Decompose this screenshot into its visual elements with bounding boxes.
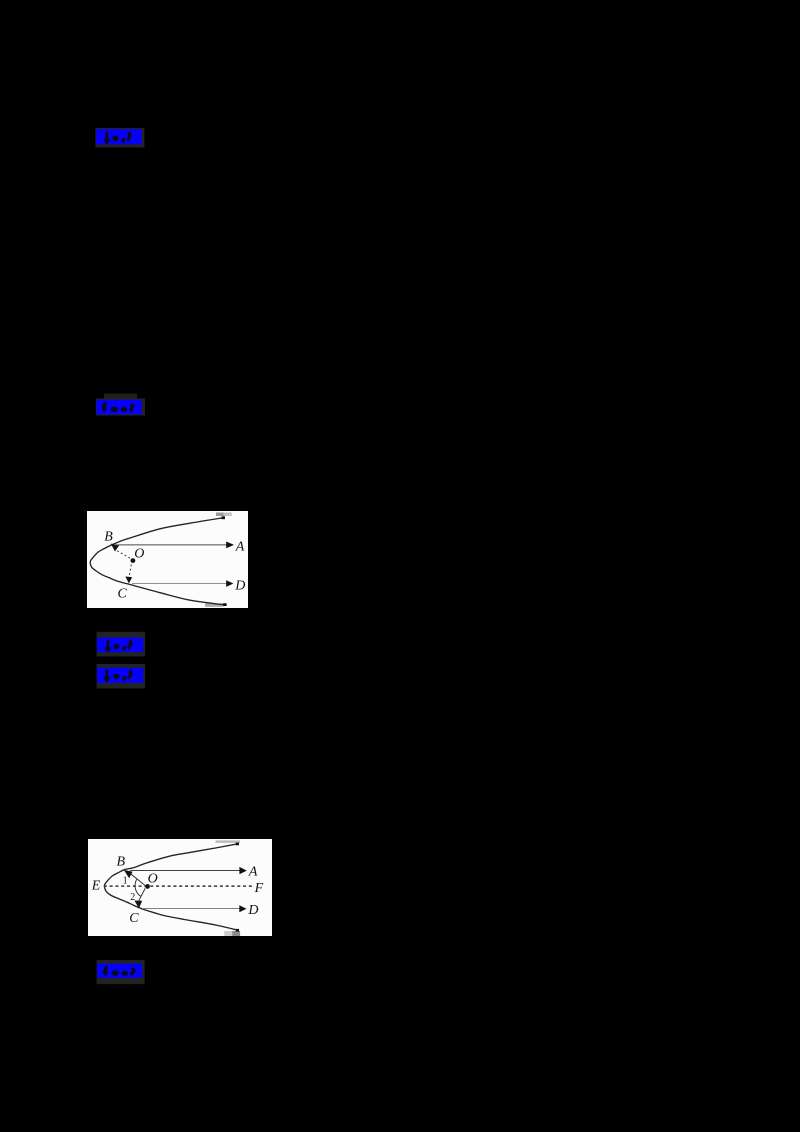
svg-text:A: A [247, 865, 257, 880]
svg-text:1: 1 [122, 876, 127, 887]
svg-text:2: 2 [130, 892, 135, 903]
svg-text:O: O [147, 872, 157, 887]
svg-text:O: O [134, 546, 144, 561]
svg-text:D: D [247, 903, 258, 918]
svg-text:E: E [90, 878, 100, 893]
svg-text:A: A [235, 539, 245, 554]
svg-text:D: D [234, 579, 245, 594]
svg-text:F: F [253, 881, 263, 896]
svg-text:B: B [116, 855, 125, 870]
svg-text:B: B [104, 529, 113, 544]
svg-text:C: C [129, 911, 139, 926]
svg-text:C: C [118, 586, 128, 601]
